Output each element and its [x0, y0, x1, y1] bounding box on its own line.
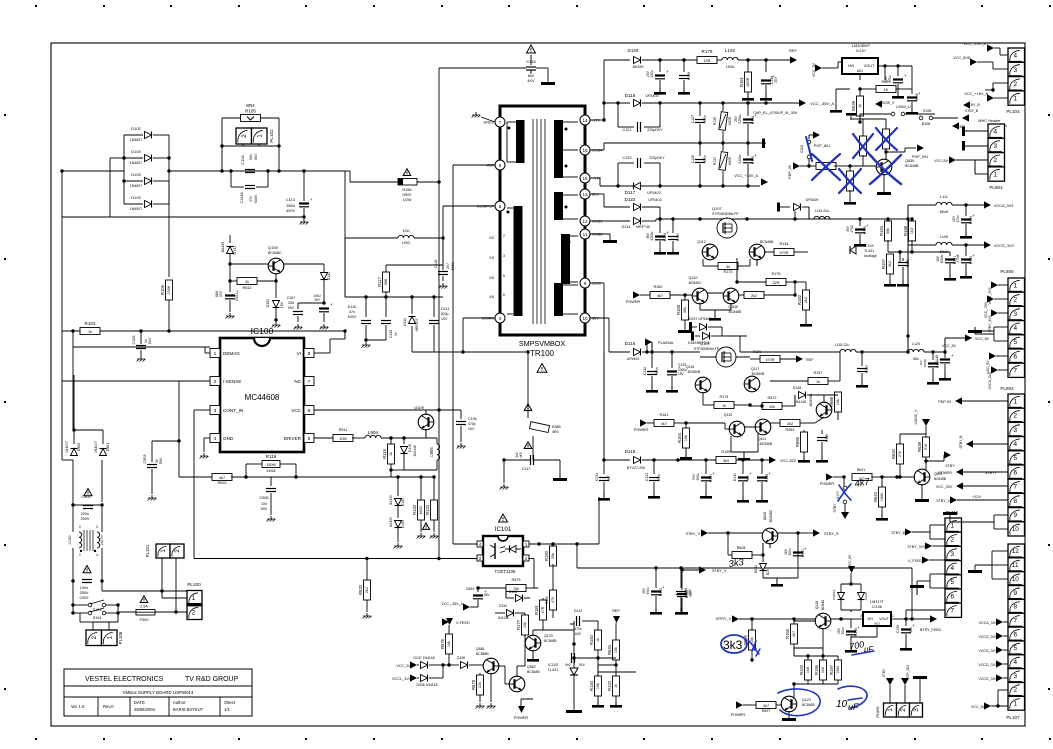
diode pair VCC_8V — [848, 566, 855, 573]
svg-text:POWER: POWER — [820, 482, 835, 486]
svg-text:BC848C: BC848C — [689, 281, 702, 285]
svg-text:-17V: -17V — [592, 119, 600, 123]
svg-text:R628: R628 — [737, 546, 746, 550]
svg-text:1: 1 — [1013, 95, 1017, 102]
svg-text:C121: C121 — [622, 128, 631, 132]
flag STBY_S — [777, 532, 798, 534]
svg-text:L100: L100 — [67, 535, 72, 545]
capacitor C641 — [911, 89, 913, 94]
svg-text:1000u: 1000u — [940, 254, 944, 263]
diode D122 UF5402 — [634, 204, 641, 211]
svg-text:2: 2 — [91, 636, 98, 640]
svg-text:35V: 35V — [592, 317, 599, 321]
svg-text:R134: R134 — [589, 680, 594, 691]
svg-text:7: 7 — [499, 120, 502, 125]
svg-text:80V: 80V — [484, 593, 491, 597]
svg-text:150U: 150U — [726, 65, 735, 69]
power gnd bar pl107 — [968, 570, 982, 573]
svg-text:R106: R106 — [160, 284, 165, 295]
svg-text:C117: C117 — [522, 467, 530, 471]
svg-text:2200u: 2200u — [650, 231, 654, 240]
svg-text:D152: D152 — [266, 299, 270, 308]
svg-text:5: 5 — [950, 579, 954, 586]
diode D137 1N4148 — [421, 662, 428, 669]
svg-text:4: 4 — [96, 553, 98, 557]
svg-text:D111: D111 — [403, 318, 407, 326]
svg-text:Rev.0: Rev.0 — [103, 704, 114, 709]
svg-text:5: 5 — [1013, 645, 1017, 652]
svg-text:Q123: Q123 — [802, 698, 811, 702]
capacitor C125 — [699, 143, 701, 156]
svg-text:250V: 250V — [80, 591, 89, 595]
diode D134 1N4148 — [507, 610, 514, 617]
svg-text:Q582: Q582 — [527, 665, 536, 669]
svg-text:560n: 560n — [703, 115, 707, 122]
capacitor C148b — [940, 358, 950, 360]
svg-text:560n: 560n — [655, 367, 659, 374]
diode D105 1N4007 — [145, 178, 152, 185]
svg-text:470n: 470n — [574, 627, 582, 631]
svg-text:2n7: 2n7 — [446, 263, 450, 269]
warning triangle D column — [422, 523, 429, 529]
svg-text:L905: L905 — [429, 447, 434, 457]
inductor L118 22u — [840, 349, 856, 352]
svg-text:R607: R607 — [762, 709, 771, 713]
connector PL804 — [988, 124, 1005, 138]
svg-text:PDP_09: PDP_09 — [788, 165, 792, 178]
svg-text:R182: R182 — [589, 634, 594, 645]
svg-text:22u: 22u — [909, 627, 913, 633]
svg-text:4: 4 — [993, 128, 997, 135]
svg-text:IC107: IC107 — [856, 49, 866, 53]
svg-text:Q109: Q109 — [414, 405, 425, 410]
flag POWER 2 — [640, 419, 647, 426]
capacitor C122 — [659, 60, 661, 72]
blue X over R803 — [839, 169, 861, 193]
resistor R512 2k — [237, 278, 257, 285]
svg-text:UF5409: UF5409 — [806, 198, 819, 202]
svg-text:D122: D122 — [625, 197, 636, 202]
TL431 IC104 — [850, 246, 856, 254]
diode D141 1N4148 — [321, 273, 328, 280]
resistor R195 3k9 — [716, 457, 736, 464]
svg-text:C130: C130 — [676, 233, 680, 241]
svg-text:39k: 39k — [886, 228, 890, 234]
svg-text:10k: 10k — [447, 641, 451, 647]
svg-text:L0903_U: L0903_U — [896, 105, 911, 109]
svg-text:HER307: HER307 — [415, 318, 419, 331]
svg-text:R158: R158 — [402, 188, 411, 192]
svg-text:UF5402: UF5402 — [645, 94, 659, 98]
wire — [822, 628, 824, 640]
svg-text:D118: D118 — [625, 93, 636, 98]
resistor R511 10M — [314, 437, 334, 439]
resistor R578 22k — [479, 673, 481, 675]
resistor R801 — [809, 165, 818, 167]
resistor R199 470R — [760, 356, 780, 363]
svg-text:UF5402: UF5402 — [648, 198, 662, 202]
svg-text:2k: 2k — [245, 280, 249, 284]
wire pl111 pin7 — [905, 610, 907, 619]
svg-text:C543: C543 — [969, 216, 973, 224]
svg-text:VCCD_3V3: VCCD_3V3 — [978, 677, 997, 681]
capacitor D140 10u — [742, 460, 744, 474]
svg-text:S110: S110 — [800, 145, 804, 153]
svg-text:1k: 1k — [389, 452, 393, 456]
transistor Q830 BC848B — [876, 159, 892, 175]
svg-text:18V: 18V — [936, 255, 940, 262]
svg-text:4: 4 — [1013, 52, 1017, 59]
resistor R640 27k — [899, 434, 901, 445]
svg-text:2n2: 2n2 — [515, 452, 519, 458]
ground — [151, 495, 153, 498]
svg-text:1KV: 1KV — [441, 317, 448, 321]
svg-text:2.5A: 2.5A — [140, 605, 148, 609]
capacitor C148 — [761, 460, 763, 474]
wire — [888, 251, 912, 253]
svg-text:390u: 390u — [646, 587, 650, 594]
diode D120 BA159 — [604, 59, 630, 61]
svg-text:470u: 470u — [956, 255, 960, 262]
inductor L115 22u — [808, 207, 810, 219]
svg-text:5: 5 — [1013, 455, 1017, 462]
transformer TR100 windings — [516, 120, 525, 163]
wire pin13 — [590, 193, 604, 195]
svg-text:C123: C123 — [645, 473, 649, 481]
svg-text:8: 8 — [1013, 498, 1017, 505]
capacitor C124 2200u — [659, 219, 661, 233]
flag STBY down — [841, 512, 849, 519]
svg-text:Q112: Q112 — [697, 240, 706, 244]
svg-text:PL106: PL106 — [118, 631, 123, 644]
svg-text:D141: D141 — [327, 272, 331, 280]
svg-text:470u: 470u — [888, 75, 892, 82]
svg-text:R672: R672 — [767, 396, 776, 400]
ground — [303, 219, 305, 222]
svg-text:15V: 15V — [280, 301, 284, 308]
svg-text:IC106: IC106 — [872, 605, 882, 609]
resistor R158 0R22 1/2W fusible — [403, 169, 411, 176]
diode D104 1N4007 — [145, 155, 152, 162]
svg-text:C105: C105 — [132, 335, 136, 344]
svg-text:R165: R165 — [785, 628, 790, 639]
ground — [366, 613, 368, 616]
svg-text:C132: C132 — [643, 367, 647, 375]
svg-text:1: 1 — [887, 708, 894, 712]
flag STBY down pl — [886, 678, 894, 685]
svg-text:R641: R641 — [857, 468, 866, 472]
flag VCC-35V — [769, 456, 776, 463]
svg-text:C148: C148 — [765, 474, 769, 482]
svg-text:POWER: POWER — [938, 471, 952, 475]
svg-text:390u: 390u — [841, 627, 845, 634]
svg-text:0R22: 0R22 — [402, 193, 411, 197]
flag STBY_B right — [962, 114, 969, 121]
svg-text:VDD: VDD — [486, 164, 494, 168]
capacitor C541 1000u — [949, 252, 951, 256]
svg-text:2: 2 — [1013, 687, 1017, 694]
svg-text:#voltage: #voltage — [864, 254, 877, 258]
svg-text:DRIVER: DRIVER — [284, 436, 302, 441]
svg-text:R511: R511 — [339, 428, 348, 432]
svg-text:1: 1 — [214, 351, 217, 357]
svg-text:16V: 16V — [884, 75, 888, 82]
inductor L902 10U — [344, 171, 346, 238]
svg-text:X2: X2 — [489, 235, 495, 240]
svg-text:R181: R181 — [534, 604, 539, 615]
warning triangle — [524, 442, 532, 449]
capacitor D113 820p 1KV — [433, 297, 435, 317]
svg-text:2: 2 — [1013, 297, 1017, 304]
resistor R182 — [805, 282, 807, 292]
resistor R175 15R — [697, 57, 717, 64]
svg-text:2: 2 — [1013, 81, 1017, 88]
capacitor C151 390u — [705, 460, 707, 474]
svg-text:BC848C: BC848C — [268, 251, 282, 255]
svg-text:PL101: PL101 — [145, 544, 150, 557]
capacitor C641b 100u — [793, 551, 803, 553]
svg-text:R132: R132 — [607, 680, 612, 691]
svg-text:35V: 35V — [846, 225, 850, 232]
svg-text:D116: D116 — [625, 341, 636, 346]
svg-text:C138: C138 — [751, 116, 755, 124]
transistor Q112 BC856B — [702, 244, 718, 260]
power gnd bar pl111 — [910, 585, 924, 588]
connector PL101 — [156, 544, 170, 558]
ground — [270, 516, 272, 519]
svg-text:220pDKY: 220pDKY — [647, 128, 663, 132]
resistor R952 2k2 — [780, 420, 800, 427]
flag POWER r641 — [826, 473, 833, 480]
svg-text:4k7: 4k7 — [219, 476, 225, 480]
svg-text:C116: C116 — [434, 260, 438, 269]
transistor Q115 BC846B — [749, 244, 765, 260]
capacitor D112 470n 63V — [570, 623, 574, 625]
svg-text:BC848B: BC848B — [544, 639, 557, 643]
svg-text:REF: REF — [789, 48, 798, 53]
wire pin9 — [590, 282, 604, 284]
capacitor C105 1n 1KV — [140, 331, 142, 344]
svg-text:1k: 1k — [614, 684, 618, 688]
svg-text:VIN: VIN — [867, 617, 873, 621]
wire — [490, 673, 492, 702]
svg-text:C902: C902 — [79, 596, 88, 600]
transistor Q116 BC850B — [695, 377, 711, 393]
svg-text:+12V: +12V — [972, 495, 981, 499]
svg-text:CONT_IN: CONT_IN — [223, 408, 243, 413]
svg-text:7: 7 — [1013, 368, 1017, 375]
wire — [72, 581, 74, 605]
svg-text:STBY_S: STBY_S — [824, 532, 839, 536]
transistor Q613 BC856B — [816, 402, 832, 418]
svg-text:VCC_+15V_A: VCC_+15V_A — [734, 174, 758, 178]
resistor R641 — [852, 474, 872, 481]
svg-text:63V: 63V — [575, 632, 582, 636]
transformer TR100 body — [500, 106, 585, 335]
svg-text:ADJ: ADJ — [857, 69, 864, 73]
resistor R139 470 — [550, 590, 557, 610]
op-amp U IC100 MC44608 body — [220, 338, 304, 452]
flag LOGIC_V down — [922, 419, 930, 426]
svg-text:C155: C155 — [896, 625, 900, 633]
svg-text:POWER: POWER — [634, 428, 649, 432]
wire mid gnd rail — [604, 142, 766, 144]
svg-text:250V: 250V — [81, 517, 90, 521]
svg-text:POWER: POWER — [731, 713, 746, 717]
svg-text:1k3: 1k3 — [910, 228, 914, 234]
svg-text:1N4148: 1N4148 — [413, 445, 417, 456]
svg-text:VMBox SUPPLY BOARD USPW014: VMBox SUPPLY BOARD USPW014 — [123, 690, 194, 695]
svg-text:R194: R194 — [879, 225, 884, 236]
diode D114 MRF740 — [604, 220, 630, 222]
svg-text:DEMAG: DEMAG — [223, 351, 240, 356]
svg-text:68uH: 68uH — [940, 250, 949, 254]
wire — [230, 263, 269, 265]
capacitor C120 220pDKY — [617, 163, 619, 186]
connector PL102 — [236, 128, 252, 144]
wire left verticals — [61, 171, 63, 217]
svg-text:IC101: IC101 — [495, 526, 512, 533]
svg-text:470R: 470R — [779, 251, 788, 255]
svg-text:R160: R160 — [653, 285, 662, 289]
resistor R190 33k — [552, 544, 554, 548]
wire — [161, 558, 163, 591]
svg-text:8n2: 8n2 — [565, 663, 571, 667]
wire snubber bus — [345, 296, 443, 298]
svg-text:C505: C505 — [259, 496, 268, 500]
diode D103 1N4007 — [145, 201, 152, 208]
svg-text:890u: 890u — [287, 204, 295, 208]
resistor R105 — [241, 115, 261, 122]
svg-text:VCCL_3V3: VCCL_3V3 — [988, 287, 992, 304]
svg-text:D140: D140 — [733, 473, 737, 481]
wire VDD vertical x453 — [453, 164, 495, 166]
svg-text:6: 6 — [1013, 469, 1017, 476]
svg-text:R139: R139 — [545, 596, 549, 604]
svg-text:PDP_901: PDP_901 — [912, 155, 928, 159]
capacitor C140 — [898, 262, 908, 264]
ground — [323, 324, 325, 327]
diode D149 1N4148 — [799, 392, 806, 399]
svg-text:100u: 100u — [788, 548, 792, 555]
svg-text:6022: 6022 — [419, 506, 423, 514]
svg-text:R679: R679 — [511, 578, 520, 582]
svg-text:R197: R197 — [829, 664, 834, 675]
capacitor C542 470u — [965, 245, 967, 256]
wire IC100 pin6 VCC — [314, 409, 439, 411]
svg-text:1N4007: 1N4007 — [94, 441, 98, 453]
svg-text:L111: L111 — [940, 195, 948, 199]
svg-text:3: 3 — [96, 525, 98, 529]
svg-text:B108: B108 — [922, 122, 930, 126]
svg-text:10: 10 — [582, 316, 588, 321]
svg-text:VCC_8V: VCC_8V — [986, 360, 990, 374]
svg-text:4700: 4700 — [850, 225, 854, 232]
flag POWER mid — [633, 291, 640, 298]
svg-text:DCINPUT: DCINPUT — [477, 205, 495, 209]
capacitor C127 — [699, 103, 701, 116]
svg-text:Q107: Q107 — [712, 206, 723, 211]
svg-text:VCC_8V: VCC_8V — [848, 554, 852, 567]
svg-text:VCC_5V: VCC_5V — [942, 344, 957, 348]
svg-text:BTRY_V: BTRY_V — [716, 617, 731, 621]
svg-text:R195: R195 — [721, 450, 730, 454]
flag REF — [790, 56, 797, 63]
wire +17V rail — [590, 177, 600, 179]
svg-text:10n: 10n — [261, 502, 267, 506]
svg-text:Q120: Q120 — [544, 634, 553, 638]
switch S103 — [73, 604, 88, 606]
svg-text:16V: 16V — [919, 360, 923, 365]
svg-text:C127: C127 — [691, 115, 695, 123]
wire — [72, 527, 74, 532]
resistor R132 1k — [615, 672, 617, 676]
resistor R198 1k3 — [911, 219, 913, 222]
svg-text:VCCL_3V3: VCCL_3V3 — [392, 677, 411, 681]
svg-text:Ver 1.0: Ver 1.0 — [71, 704, 85, 709]
svg-text:50V: 50V — [261, 507, 268, 511]
flag VCC_-35V_A — [799, 99, 806, 106]
capacitor C132 — [651, 352, 653, 368]
svg-text:4: 4 — [950, 565, 954, 572]
svg-text:4KV: 4KV — [519, 451, 523, 458]
svg-text:1: 1 — [79, 553, 81, 557]
wire opto pin2 right — [529, 558, 534, 560]
svg-text:BC848C: BC848C — [769, 509, 773, 522]
svg-text:R585: R585 — [552, 425, 561, 429]
svg-text:R161: R161 — [659, 413, 668, 417]
svg-text:LOGIC_V: LOGIC_V — [914, 409, 918, 424]
svg-text:35V: 35V — [642, 587, 646, 594]
svg-text:VIN: VIN — [848, 64, 855, 68]
svg-text:2k2: 2k2 — [365, 587, 369, 593]
svg-text:LM108WT: LM108WT — [852, 43, 871, 48]
transistor Q111 BC846B — [755, 419, 771, 435]
wire — [883, 174, 885, 192]
svg-text:GND3: GND3 — [592, 220, 603, 224]
transistor Q582 BC848B — [509, 676, 525, 692]
svg-text:3: 3 — [1013, 67, 1017, 74]
power gnd bar — [762, 139, 765, 149]
svg-text:3k3: 3k3 — [728, 557, 745, 570]
svg-text:35V: 35V — [314, 298, 321, 302]
inductor L100 common mode choke — [79, 532, 82, 548]
svg-text:6: 6 — [950, 593, 954, 600]
svg-text:4k7: 4k7 — [657, 294, 663, 298]
ground — [442, 283, 444, 286]
flag POWER br — [736, 701, 743, 708]
capacitor D162 390u — [655, 568, 657, 588]
svg-text:5: 5 — [308, 436, 311, 442]
svg-text:D131: D131 — [233, 245, 237, 254]
flag VCCL_3V3 pl605 — [991, 281, 998, 288]
svg-text:50V: 50V — [159, 457, 163, 464]
resistor R152 2k2 — [744, 292, 764, 299]
svg-text:25V: 25V — [646, 70, 650, 77]
capacitor C160 100U 35V — [319, 307, 329, 309]
svg-text:22k: 22k — [478, 682, 482, 688]
svg-text:I-SENSE: I-SENSE — [223, 379, 241, 384]
wire — [769, 543, 771, 548]
svg-text:470p: 470p — [468, 422, 476, 426]
svg-text:C901: C901 — [81, 494, 91, 499]
svg-text:VCCA_3V3: VCCA_3V3 — [988, 372, 992, 389]
svg-text:R119: R119 — [382, 448, 387, 458]
svg-text:1k: 1k — [88, 330, 92, 334]
svg-text:VCCD_3V3: VCCD_3V3 — [978, 635, 997, 639]
resistor R637 1K — [876, 86, 896, 93]
inductor L120 68u — [872, 351, 908, 353]
